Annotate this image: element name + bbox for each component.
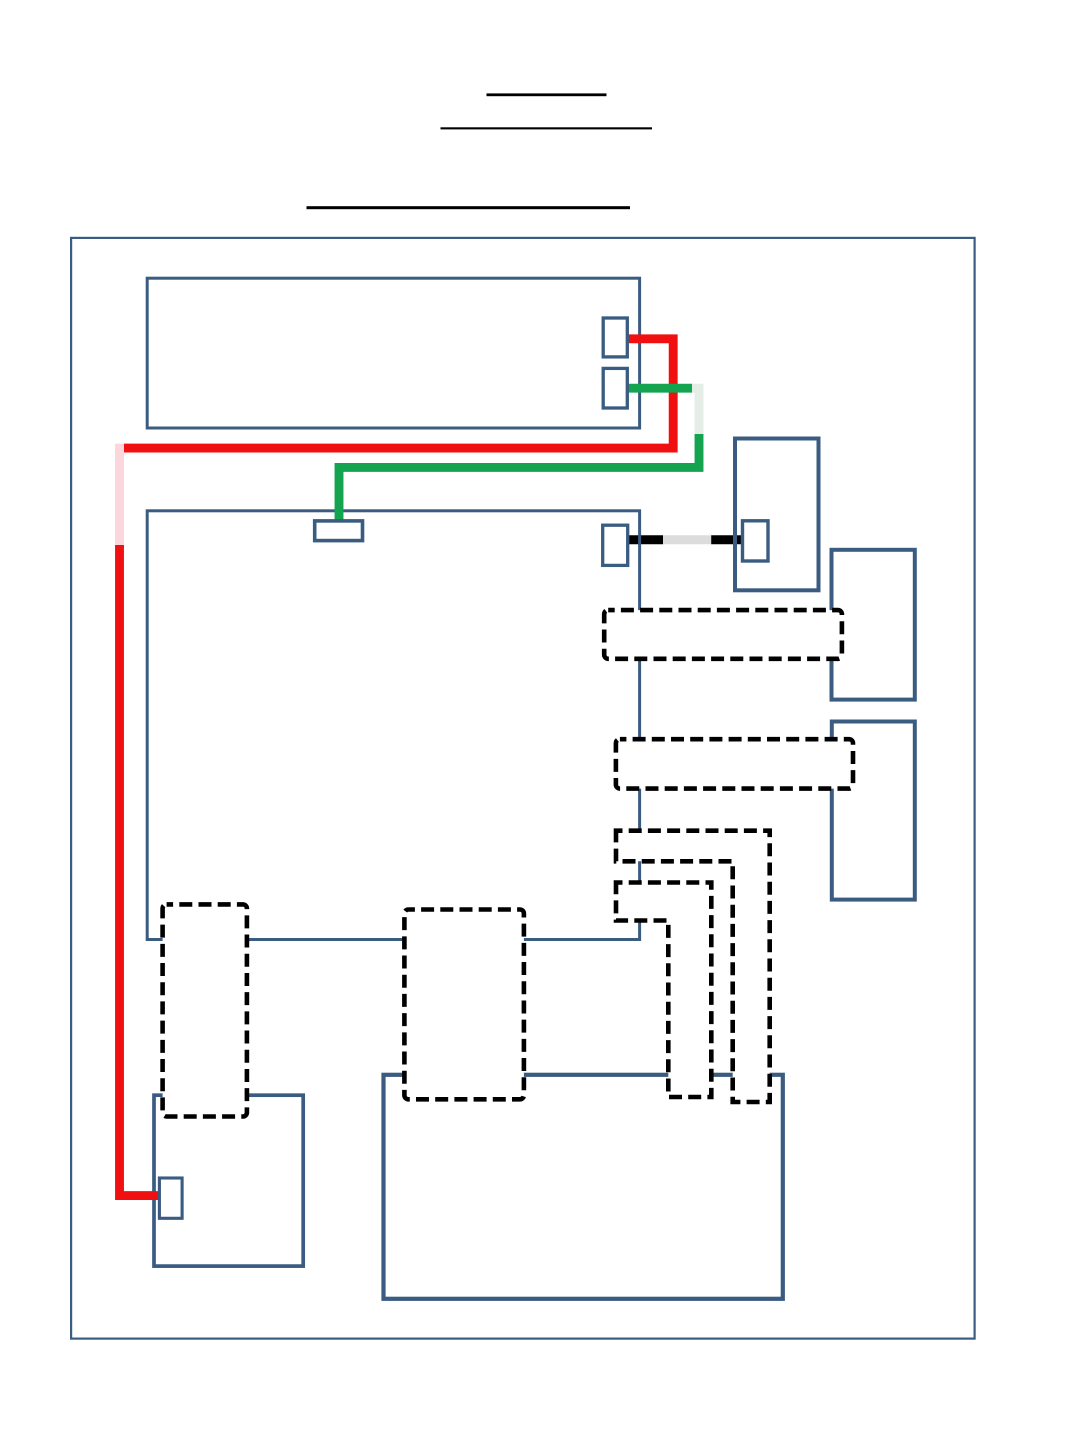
title underline 1 <box>487 93 607 96</box>
outer border frame <box>71 238 975 1339</box>
wire: black jumper from main unit pin to housing pin (left black segment) <box>629 535 663 544</box>
dashed duct inner (mirrored-L shape) <box>616 883 711 1098</box>
connector: small terminal block on top edge of main unit <box>315 521 363 541</box>
box: right unit 2 <box>832 722 915 900</box>
wire: green lead down, across and into connector on main unit <box>339 434 699 523</box>
box: main unit (center-left) <box>147 511 639 940</box>
wire: green lead from top unit pin 2 <box>627 384 692 393</box>
box: top unit (ECU) <box>147 278 639 428</box>
wire: black jumper right segment <box>711 535 741 544</box>
wire: faded pink section of red harness (left vertical, upper part) <box>115 444 124 545</box>
dashed relay block 2 (wide, lower) <box>616 739 853 788</box>
box: right unit 1 <box>832 550 915 700</box>
pin: housing pin <box>743 521 769 561</box>
title underline 3 <box>307 206 631 209</box>
box: tall connector housing (right of main unit) <box>735 439 819 591</box>
pin: top unit pin 2 <box>603 368 627 408</box>
dashed relay block 1 (wide, upper) <box>604 610 842 659</box>
dashed duct outer (mirrored-L shape) <box>616 831 770 1102</box>
wire: red harness left vertical down to bottom-left unit pin <box>120 545 160 1196</box>
dashed junction box left <box>163 904 247 1116</box>
title underline 2 <box>441 127 653 129</box>
pin: bottom-left unit pin <box>159 1178 182 1218</box>
pin: main unit right pin <box>603 525 628 565</box>
box: bottom-left unit <box>154 1095 303 1266</box>
wire: faded section of green lead (corner and upper vertical) <box>692 388 699 434</box>
wire: red harness from top unit pin, down and across to left side <box>124 339 673 448</box>
pin: top unit pin 1 <box>603 318 627 357</box>
dashed junction box middle <box>404 910 524 1100</box>
box: bottom unit <box>384 1075 783 1299</box>
wire: faded gray middle of black jumper <box>663 535 711 544</box>
